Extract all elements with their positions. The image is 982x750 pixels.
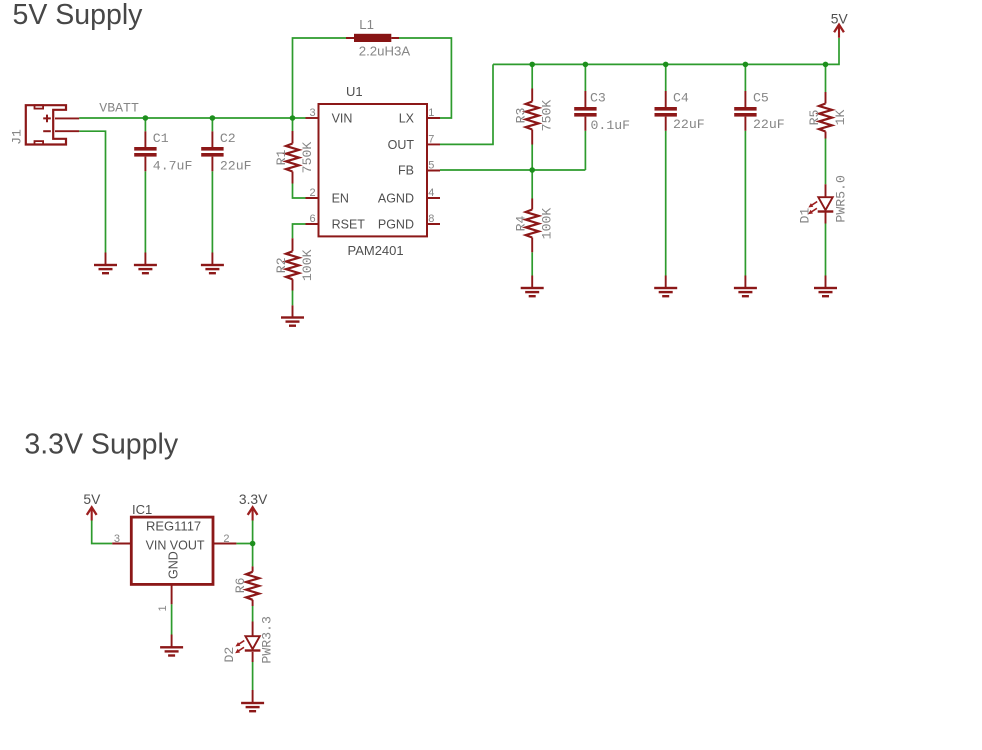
svg-text:J1: J1 xyxy=(10,129,25,145)
svg-text:1K: 1K xyxy=(833,110,848,126)
svg-text:C2: C2 xyxy=(220,131,236,146)
svg-text:5V: 5V xyxy=(83,492,101,507)
svg-text:750K: 750K xyxy=(300,142,315,174)
svg-text:D1: D1 xyxy=(798,208,813,224)
svg-text:PWR5.0: PWR5.0 xyxy=(834,175,849,223)
svg-text:C4: C4 xyxy=(673,90,689,105)
svg-text:R5: R5 xyxy=(807,110,822,126)
svg-text:100K: 100K xyxy=(540,208,555,240)
svg-text:750K: 750K xyxy=(540,100,555,132)
svg-text:R2: R2 xyxy=(274,257,289,273)
svg-text:6: 6 xyxy=(309,213,315,225)
svg-text:2: 2 xyxy=(309,187,315,199)
svg-text:R1: R1 xyxy=(274,150,289,166)
svg-text:5V: 5V xyxy=(831,11,849,26)
svg-text:R3: R3 xyxy=(513,108,528,124)
svg-text:OUT: OUT xyxy=(388,138,415,152)
svg-text:100K: 100K xyxy=(300,249,315,281)
svg-text:VBATT: VBATT xyxy=(99,101,139,116)
svg-text:PGND: PGND xyxy=(378,218,414,232)
svg-text:VIN: VIN xyxy=(146,539,167,553)
svg-text:3: 3 xyxy=(309,107,315,119)
svg-text:22uF: 22uF xyxy=(220,159,252,174)
svg-text:1: 1 xyxy=(428,107,434,119)
svg-text:22uF: 22uF xyxy=(753,117,785,132)
svg-text:PAM2401: PAM2401 xyxy=(348,243,404,258)
svg-text:EN: EN xyxy=(332,192,349,206)
svg-text:1: 1 xyxy=(157,605,169,611)
svg-text:C5: C5 xyxy=(753,90,769,105)
svg-text:LX: LX xyxy=(399,112,415,126)
svg-text:C1: C1 xyxy=(153,131,169,146)
svg-text:5: 5 xyxy=(428,160,434,172)
svg-text:IC1: IC1 xyxy=(132,502,152,517)
svg-text:3.3V: 3.3V xyxy=(239,492,268,507)
svg-text:4.7uF: 4.7uF xyxy=(153,159,193,174)
svg-text:R4: R4 xyxy=(513,216,528,232)
svg-text:8: 8 xyxy=(428,213,434,225)
svg-text:7: 7 xyxy=(428,134,434,146)
svg-text:REG1117: REG1117 xyxy=(146,519,201,534)
svg-text:RSET: RSET xyxy=(332,218,366,232)
svg-text:3: 3 xyxy=(114,533,120,545)
svg-text:2.2uH3A: 2.2uH3A xyxy=(359,43,411,58)
svg-text:D2: D2 xyxy=(222,647,237,663)
svg-text:L1: L1 xyxy=(359,17,374,32)
svg-text:VIN: VIN xyxy=(332,112,353,126)
svg-text:PWR3.3: PWR3.3 xyxy=(260,616,275,664)
svg-text:4: 4 xyxy=(428,187,434,199)
svg-text:U1: U1 xyxy=(346,84,363,99)
svg-text:R6: R6 xyxy=(233,577,248,593)
svg-text:0.1uF: 0.1uF xyxy=(591,118,631,133)
svg-text:C3: C3 xyxy=(590,90,606,105)
svg-text:AGND: AGND xyxy=(378,192,414,206)
svg-text:5V Supply: 5V Supply xyxy=(13,0,144,31)
svg-text:FB: FB xyxy=(398,164,414,178)
svg-text:22uF: 22uF xyxy=(673,117,705,132)
svg-text:3.3V Supply: 3.3V Supply xyxy=(24,428,178,460)
svg-text:GND: GND xyxy=(167,551,181,579)
svg-text:2: 2 xyxy=(223,533,229,545)
svg-text:VOUT: VOUT xyxy=(170,539,205,553)
